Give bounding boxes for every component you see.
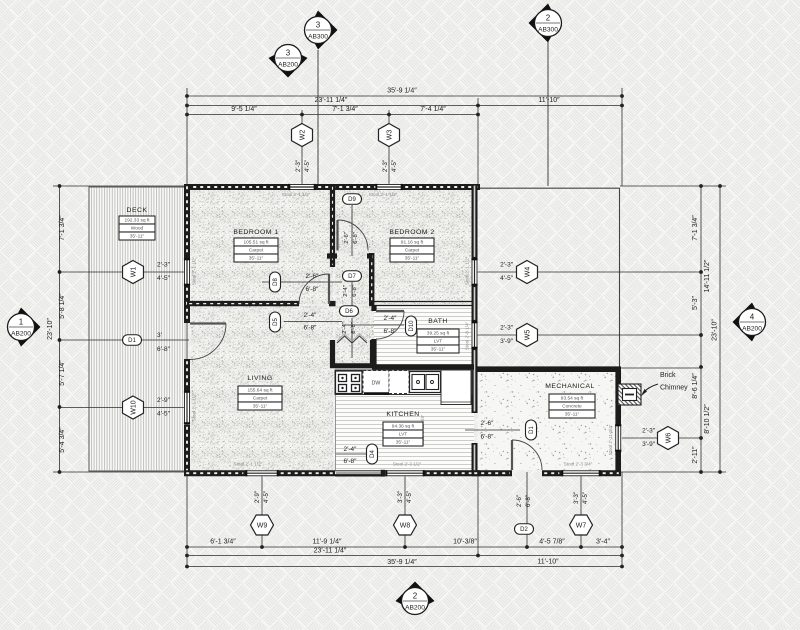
svg-text:BATH: BATH <box>428 318 448 325</box>
svg-text:AB300: AB300 <box>538 27 558 34</box>
svg-text:W6: W6 <box>665 433 672 444</box>
svg-text:7′-4 1/4″: 7′-4 1/4″ <box>420 106 446 113</box>
svg-text:23′-10″: 23′-10″ <box>47 318 54 340</box>
svg-text:35′-9 1/4″: 35′-9 1/4″ <box>387 559 417 566</box>
svg-text:Stool 2′-8 1/4″: Stool 2′-8 1/4″ <box>465 321 470 350</box>
svg-text:D1: D1 <box>128 338 136 344</box>
svg-text:Carpet: Carpet <box>253 396 268 402</box>
svg-text:W5: W5 <box>524 330 531 341</box>
svg-text:2′-9″: 2′-9″ <box>157 397 171 404</box>
svg-text:3′-3″: 3′-3″ <box>398 490 404 503</box>
svg-text:39.25 sq ft: 39.25 sq ft <box>427 331 450 337</box>
svg-text:3′-4″: 3′-4″ <box>596 539 610 546</box>
svg-text:DECK: DECK <box>127 207 148 214</box>
svg-text:35′-11″: 35′-11″ <box>565 412 580 418</box>
svg-text:2′-4″: 2′-4″ <box>384 315 398 322</box>
svg-text:94.36 sq ft: 94.36 sq ft <box>392 424 415 430</box>
svg-text:4′-5″: 4′-5″ <box>264 490 270 503</box>
svg-text:Stool 2′-3 1/2″: Stool 2′-3 1/2″ <box>393 462 422 467</box>
svg-text:1: 1 <box>19 317 24 326</box>
svg-text:2′-3″: 2′-3″ <box>500 262 514 269</box>
svg-text:Stool 2′-1 1/2″: Stool 2′-1 1/2″ <box>192 256 197 285</box>
svg-text:3: 3 <box>286 48 291 57</box>
svg-text:23′-11 1/4″: 23′-11 1/4″ <box>314 548 347 555</box>
svg-text:AB200: AB200 <box>278 62 298 69</box>
svg-text:7′-1 3/4″: 7′-1 3/4″ <box>692 215 699 241</box>
svg-text:4′-5″: 4′-5″ <box>157 275 171 282</box>
svg-text:4′-5″: 4′-5″ <box>392 159 398 172</box>
svg-text:W3: W3 <box>386 130 393 141</box>
svg-text:10′-3/8″: 10′-3/8″ <box>453 539 477 546</box>
svg-text:2′-3″: 2′-3″ <box>642 428 656 435</box>
svg-text:MECHANICAL: MECHANICAL <box>545 383 595 390</box>
svg-text:D2: D2 <box>520 527 528 533</box>
svg-text:5′-3″: 5′-3″ <box>692 296 699 310</box>
svg-text:3′: 3′ <box>157 332 163 339</box>
svg-text:4′-5″: 4′-5″ <box>583 491 589 504</box>
svg-text:2′-3″: 2′-3″ <box>296 159 302 172</box>
svg-text:6′-8″: 6′-8″ <box>157 346 171 353</box>
svg-text:11′-9 1/4″: 11′-9 1/4″ <box>313 539 342 546</box>
svg-text:2′-4″: 2′-4″ <box>304 312 318 319</box>
svg-text:AB200: AB200 <box>11 331 31 338</box>
svg-text:KITCHEN: KITCHEN <box>386 411 419 418</box>
svg-text:6′-8″: 6′-8″ <box>351 322 357 334</box>
svg-text:Carpet: Carpet <box>249 248 264 254</box>
svg-text:AB200: AB200 <box>405 605 425 612</box>
svg-text:D8: D8 <box>273 278 279 286</box>
svg-text:DW: DW <box>372 381 381 387</box>
svg-text:155.64 sq ft: 155.64 sq ft <box>247 388 273 394</box>
svg-text:W8: W8 <box>400 522 411 529</box>
svg-text:3′-9″: 3′-9″ <box>500 338 514 345</box>
svg-text:W9: W9 <box>257 522 268 529</box>
svg-text:W1: W1 <box>130 267 137 278</box>
svg-text:91.16 sq ft: 91.16 sq ft <box>401 240 424 246</box>
svg-text:Wood: Wood <box>131 226 144 232</box>
svg-text:35′-11″: 35′-11″ <box>431 347 446 353</box>
svg-text:23′-11 1/4″: 23′-11 1/4″ <box>315 97 348 104</box>
svg-text:Stool 2′-1 1/2″: Stool 2′-1 1/2″ <box>369 192 398 197</box>
svg-text:2′-4″: 2′-4″ <box>343 285 349 297</box>
svg-text:35′-11″: 35′-11″ <box>405 256 420 262</box>
svg-text:Chimney: Chimney <box>660 385 688 392</box>
svg-text:AB300: AB300 <box>308 34 328 41</box>
svg-text:7′-1 3/4″: 7′-1 3/4″ <box>332 106 358 113</box>
svg-text:4′-5″: 4′-5″ <box>305 159 311 172</box>
svg-text:Brick: Brick <box>660 372 676 379</box>
svg-text:4′-5″: 4′-5″ <box>157 411 171 418</box>
svg-text:BEDROOM 2: BEDROOM 2 <box>389 229 434 236</box>
svg-text:105.51 sq ft: 105.51 sq ft <box>243 240 269 246</box>
svg-text:2′-6″: 2′-6″ <box>344 232 350 244</box>
svg-text:3′-3″: 3′-3″ <box>574 491 580 504</box>
svg-text:BEDROOM 1: BEDROOM 1 <box>233 229 278 236</box>
svg-text:6′-8″: 6′-8″ <box>306 286 320 293</box>
svg-text:35′-11″: 35′-11″ <box>396 440 411 446</box>
svg-text:D5: D5 <box>273 318 279 326</box>
svg-text:6′-8″: 6′-8″ <box>526 494 532 507</box>
svg-text:Stool 2′-1 1/2″: Stool 2′-1 1/2″ <box>282 192 311 197</box>
svg-text:Stool 2′-1 1/2″: Stool 2′-1 1/2″ <box>465 256 470 285</box>
svg-text:W10: W10 <box>130 400 137 415</box>
svg-text:2′-3″: 2′-3″ <box>383 159 389 172</box>
svg-text:11′-10″: 11′-10″ <box>538 97 560 104</box>
svg-text:14′-11 1/2″: 14′-11 1/2″ <box>704 259 711 292</box>
svg-text:6′-8″: 6′-8″ <box>481 434 495 441</box>
svg-text:2′-3″: 2′-3″ <box>157 262 171 269</box>
svg-text:2: 2 <box>413 591 418 600</box>
svg-text:35′-9 1/4″: 35′-9 1/4″ <box>387 88 417 95</box>
svg-text:35′-11″: 35′-11″ <box>130 234 145 240</box>
svg-text:LVT: LVT <box>434 339 443 345</box>
svg-text:D1: D1 <box>529 426 535 434</box>
svg-text:6′-8″: 6′-8″ <box>353 232 359 244</box>
svg-text:LVT: LVT <box>399 432 408 438</box>
svg-text:192.33 sq ft: 192.33 sq ft <box>124 218 150 224</box>
svg-text:23′-10″: 23′-10″ <box>712 319 719 341</box>
svg-text:6′-8″: 6′-8″ <box>304 325 318 332</box>
svg-text:2′-3″: 2′-3″ <box>500 325 514 332</box>
svg-text:2′-4″: 2′-4″ <box>342 322 348 334</box>
svg-text:Concrete: Concrete <box>562 404 582 410</box>
svg-text:3′-9″: 3′-9″ <box>642 441 656 448</box>
svg-text:AB200: AB200 <box>742 326 762 333</box>
svg-text:2′-9″: 2′-9″ <box>255 490 261 503</box>
svg-text:D6: D6 <box>345 309 353 315</box>
svg-text:Stool 2′-1 1/2″: Stool 2′-1 1/2″ <box>192 392 197 421</box>
svg-text:35′-11″: 35′-11″ <box>253 404 268 410</box>
svg-text:4′-5″: 4′-5″ <box>407 490 413 503</box>
svg-text:2: 2 <box>546 13 551 22</box>
svg-text:4′-5″: 4′-5″ <box>500 275 514 282</box>
svg-text:Stool 2′-1 1/2″: Stool 2′-1 1/2″ <box>234 462 263 467</box>
svg-text:6′-1 3/4″: 6′-1 3/4″ <box>210 539 236 546</box>
svg-text:8′-10 1/2″: 8′-10 1/2″ <box>704 404 711 434</box>
svg-text:3: 3 <box>316 20 321 29</box>
svg-text:93.54 sq ft: 93.54 sq ft <box>561 396 584 402</box>
svg-text:W7: W7 <box>576 522 587 529</box>
svg-text:35′-11″: 35′-11″ <box>249 256 264 262</box>
svg-text:6′-8″: 6′-8″ <box>352 285 358 297</box>
svg-text:Stool 2′-11 3/4″: Stool 2′-11 3/4″ <box>608 424 613 455</box>
svg-text:4: 4 <box>750 312 755 321</box>
svg-text:2′-4″: 2′-4″ <box>344 446 358 453</box>
svg-text:6′-8″: 6′-8″ <box>344 458 358 465</box>
svg-text:W2: W2 <box>299 130 306 141</box>
svg-text:7′-1 3/4″: 7′-1 3/4″ <box>59 215 66 241</box>
svg-text:2′-6″: 2′-6″ <box>481 420 495 427</box>
svg-text:D4: D4 <box>370 450 376 458</box>
svg-text:2′-11″: 2′-11″ <box>692 446 699 464</box>
svg-text:8′-6 1/4″: 8′-6 1/4″ <box>692 373 699 399</box>
svg-text:Stool 2′-3 3/4″: Stool 2′-3 3/4″ <box>564 462 593 467</box>
svg-text:5′-8 1/4″: 5′-8 1/4″ <box>59 293 66 319</box>
svg-text:11′-10″: 11′-10″ <box>537 559 559 566</box>
svg-text:LIVING: LIVING <box>247 375 272 382</box>
svg-text:5′-7 1/4″: 5′-7 1/4″ <box>59 360 66 386</box>
svg-text:9′-5 1/4″: 9′-5 1/4″ <box>231 106 257 113</box>
svg-text:D7: D7 <box>348 274 356 280</box>
svg-text:5′-4 3/4″: 5′-4 3/4″ <box>59 427 66 453</box>
svg-text:Carpet: Carpet <box>405 248 420 254</box>
svg-text:D9: D9 <box>348 197 356 203</box>
svg-text:2′-6″: 2′-6″ <box>517 494 523 507</box>
svg-text:W4: W4 <box>524 267 531 278</box>
svg-text:4′-5 7/8″: 4′-5 7/8″ <box>539 539 565 546</box>
svg-text:D10: D10 <box>409 320 415 332</box>
